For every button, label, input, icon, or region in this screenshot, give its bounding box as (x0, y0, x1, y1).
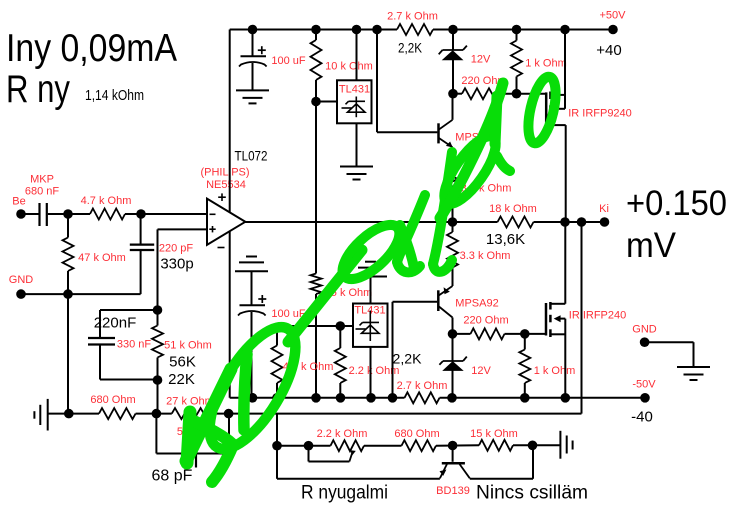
svg-text:1,14 kOhm: 1,14 kOhm (85, 88, 144, 104)
node lower rail junction B1 (248, 393, 258, 403)
node top rail junction A4 (372, 25, 382, 35)
wire op-amp V- supply (229, 232, 231, 398)
wire input to cap (21, 213, 39, 215)
wire 220pF bottom riser (140, 250, 142, 294)
wire MPSA42 base horizontal (377, 131, 437, 133)
wire TL431-top cathode (356, 30, 358, 81)
ground under 100uF-top (236, 89, 269, 91)
op-amp V+ marker (218, 196, 226, 198)
wire 47k bottom stem (67, 271, 69, 294)
wire 220pF top stem (140, 214, 142, 245)
wire TL431-top ref link (316, 101, 337, 103)
resistor 680 Ohm feedback (99, 408, 136, 419)
node 220R/1k/gate junction lower (520, 329, 530, 339)
ground inverted above 100uF-lower (246, 256, 257, 258)
transistor Q-MPSA92 (437, 290, 440, 311)
svg-text:4.7 k Ohm: 4.7 k Ohm (81, 195, 132, 207)
node top rail junction A5 (zener top) (448, 25, 458, 35)
resistor 27k (172, 408, 210, 419)
capacitor 68pF loop (155, 414, 157, 454)
wire 4.7k-low bottom stem (276, 383, 278, 398)
svg-text:1 k Ohm: 1 k Ohm (525, 58, 567, 70)
svg-text:mV: mV (626, 226, 677, 265)
svg-text:GND: GND (632, 324, 657, 336)
resistor 3.3k lower (447, 232, 458, 268)
wire gate IRFP240 (525, 333, 545, 335)
node lower rail junction B4 (336, 393, 346, 403)
wire 3.3k-upper to output (452, 202, 454, 223)
wire 1k-top bottom stem (516, 77, 518, 94)
symbol trimmer wiper arrow (349, 452, 352, 462)
wire BD139 emitter line (277, 478, 440, 480)
svg-text:MKP: MKP (30, 174, 54, 186)
wire top rail left segment (filtered +supply node) (230, 29, 397, 31)
wire 15k to lower rail (315, 294, 317, 398)
node 51k top junction (153, 305, 163, 315)
wire bias line 2 (364, 445, 402, 447)
op-amp V- marker (218, 247, 225, 249)
wire TL431-lower bottom stem (370, 347, 372, 398)
wire top rail right segment (+50V rail) (433, 29, 613, 31)
wire zener-top cathode stem (452, 30, 454, 51)
wire op-amp V+ supply (229, 30, 231, 213)
node 10k-TL431 junction (311, 97, 321, 107)
svg-text:IR IRFP9240: IR IRFP9240 (568, 108, 632, 120)
svg-text:1 k Ohm: 1 k Ohm (534, 365, 576, 377)
svg-text:10 k Ohm: 10 k Ohm (325, 61, 373, 73)
ground under TL431-top (340, 166, 373, 168)
symbol TL431 lower internals (369, 311, 371, 342)
wire IRFP9240 source to +50V (564, 30, 566, 109)
wire ref line y326 (277, 325, 353, 327)
resistor 4.7k lower (272, 346, 283, 384)
node lower rail junction B2 (272, 393, 282, 403)
capacitor MKP 680nF (38, 203, 40, 226)
svg-text:R nyugalmi: R nyugalmi (301, 483, 388, 504)
svg-text:(PHIL PS): (PHIL PS) (200, 167, 249, 179)
node 47k/GND junction (63, 289, 73, 299)
node bias node C4 (528, 441, 538, 451)
wire GND line (21, 293, 141, 295)
node top rail junction A1 (248, 25, 258, 35)
wire trimmer tap loop (308, 446, 310, 462)
svg-text:2.2 k Ohm: 2.2 k Ohm (317, 428, 368, 440)
ground rotated left (47, 399, 49, 431)
svg-text:12V: 12V (471, 54, 491, 66)
node output/3.3k junction (448, 217, 458, 227)
node input terminal Be (16, 209, 26, 219)
svg-text:R ny: R ny (6, 68, 70, 111)
wire gate IRFP9240 (517, 93, 546, 95)
watermark KD audio (186, 369, 231, 461)
svg-text:18 k Ohm: 18 k Ohm (489, 203, 537, 215)
node +50V terminal (608, 25, 618, 35)
resistor 220 Ohm lower (453, 333, 471, 335)
wire 4.7k-low top stem (276, 326, 278, 346)
svg-text:330 nF: 330 nF (117, 339, 152, 351)
capacitor C-100uF-lower (240, 304, 266, 306)
resistor 15k bias (479, 440, 513, 451)
wire bias line 3 (436, 444, 479, 446)
svg-text:-50V: -50V (632, 379, 656, 391)
node lower rail junction B3 (311, 393, 321, 403)
wire 2.2k-low top stem (339, 326, 341, 348)
svg-text:GND: GND (9, 274, 34, 286)
wire bias line 4 (513, 444, 560, 446)
svg-text:TL072: TL072 (235, 149, 268, 164)
node lower rail junction B9 (mosfet source low) (561, 393, 571, 403)
wire 100uF-top stem upper (252, 30, 254, 57)
svg-text:2,2K: 2,2K (398, 40, 423, 56)
wire IRFP240 source to rail (564, 319, 566, 398)
transistor Q-IRFP240 (545, 303, 548, 336)
node 51k bottom junction (153, 375, 163, 385)
wire BD139 collector riser (532, 445, 534, 479)
ground symbol right (677, 366, 710, 368)
node bias node C3 (BD139 base) (448, 441, 458, 451)
svg-text:2,2K: 2,2K (393, 351, 423, 367)
svg-text:3.3 k Ohm: 3.3 k Ohm (460, 250, 511, 262)
node top rail junction A6 (1k top) (512, 25, 522, 35)
wire TL431-top anode stem (356, 123, 358, 166)
wire IRFP9240 drain to output (565, 125, 567, 222)
wire lower rail right segment (-50V) (440, 397, 646, 399)
node -50V terminal (640, 393, 650, 403)
diode zener 12V lower (443, 360, 463, 362)
wire MPSA92 base horizontal (393, 301, 438, 303)
wire 220nF top link (100, 309, 158, 311)
wire 1k-low bottom stem (524, 383, 526, 398)
node feedback node F1 (64, 409, 74, 419)
svg-text:2.7 k Ohm: 2.7 k Ohm (397, 380, 448, 392)
svg-text:MPSA92: MPSA92 (455, 298, 498, 310)
svg-text:IR IRFP240: IR IRFP240 (569, 310, 626, 322)
node zener-top / 220R junction (448, 89, 458, 99)
svg-text:12V: 12V (471, 365, 491, 377)
resistor 680 Ohm bias (402, 440, 437, 451)
op-amp noninverting input marker (209, 228, 215, 230)
wire to op-amp inverting input (125, 213, 207, 215)
node MPSA92-collector/220R junction (448, 329, 458, 339)
wire 10k bottom stem (315, 80, 317, 102)
wire feedback long line (210, 413, 581, 415)
svg-text:51 k Ohm: 51 k Ohm (164, 340, 212, 352)
IC TL431 top box (337, 80, 372, 123)
svg-text:Nincs csilläm: Nincs csilläm (476, 483, 588, 504)
svg-text:BD139: BD139 (436, 485, 470, 497)
node GND terminal right (640, 337, 650, 347)
svg-text:Ki: Ki (599, 203, 609, 215)
svg-text:56K: 56K (169, 354, 196, 371)
node output/feedback junction (577, 217, 587, 227)
resistor 2.7k lower (405, 392, 440, 403)
svg-text:2.7 k Ohm: 2.7 k Ohm (387, 11, 438, 23)
wire TL431-lower top stem (370, 277, 372, 304)
svg-text:220nF: 220nF (94, 315, 137, 332)
node GND terminal left (16, 289, 26, 299)
node output/drain junction (560, 217, 570, 227)
node top rail junction A7 (mosfet source) (560, 25, 570, 35)
resistor 4.7k input (90, 209, 125, 220)
svg-text:330p: 330p (160, 256, 193, 273)
resistor 51k (152, 326, 163, 358)
node lower rail junction B6 (388, 393, 398, 403)
wire +input vertical (157, 229, 159, 310)
wire lower rail left segment (230, 397, 405, 399)
ground inverted above TL431-lower (365, 261, 376, 263)
resistor 18k (498, 217, 534, 228)
wire 10k-to-15k vertical (315, 102, 317, 274)
wire 47k top stem (67, 214, 69, 238)
wire filtered-rail to MPSA42 base vertical (376, 30, 378, 133)
wire 3.3k-lower top stem (452, 222, 454, 232)
svg-text:+0.150: +0.150 (626, 184, 727, 223)
wire 220nF bottom link (100, 379, 158, 381)
node input node B (136, 209, 146, 219)
capacitor C-100uF-top (241, 55, 267, 57)
wire zener-lower top stem (452, 334, 454, 361)
wire 220nF left riser (99, 310, 101, 338)
wire IRFP240 drain to output (564, 222, 566, 304)
wire MPSA92 base to filtered lower rail (392, 302, 394, 398)
node lower rail junction B7 (zener low) (447, 393, 457, 403)
resistor 220 Ohm top (453, 93, 462, 95)
svg-text:220 pF: 220 pF (159, 243, 194, 255)
svg-text:13,6K: 13,6K (486, 231, 525, 248)
node feedback node F2 (152, 409, 162, 419)
svg-text:100 uF: 100 uF (271, 55, 306, 67)
wire cap to node A (48, 213, 90, 215)
svg-text:220 Ohm: 220 Ohm (463, 315, 508, 327)
wire 100uF-lower top stem (251, 271, 253, 305)
resistor 47k (63, 238, 74, 272)
op-amp U1 TL072 triangle (207, 199, 245, 245)
svg-text:47 k Ohm: 47 k Ohm (78, 252, 126, 264)
svg-text:680 Ohm: 680 Ohm (90, 394, 135, 406)
op-amp inverting input marker (210, 213, 216, 215)
wire GND-right vertical (693, 342, 695, 367)
wire feedback riser (581, 222, 583, 414)
svg-text:680 Ohm: 680 Ohm (394, 428, 439, 440)
svg-text:15 k Ohm: 15 k Ohm (470, 428, 518, 440)
svg-text:TL431: TL431 (339, 84, 370, 96)
wire left vertical 68-down (67, 294, 69, 414)
resistor 2.2k lower (335, 348, 346, 383)
node lower rail junction B5 (366, 393, 376, 403)
resistor 1k lower (519, 350, 530, 384)
wire 220nF bottom riser (99, 345, 101, 380)
resistor trimmer 2.2k (331, 440, 365, 451)
wire MPSA92 emitter stem (452, 268, 454, 287)
wire output line right (534, 221, 605, 223)
IC TL431 lower box (353, 304, 388, 347)
wire 10k top stem (315, 30, 317, 41)
wire 51k top stem (157, 310, 159, 326)
node 1k/220R/gate junction top (512, 89, 522, 99)
wire MPSA92 collector stem (452, 318, 454, 334)
svg-text:-40: -40 (631, 409, 653, 426)
wire bias drop vertical (276, 414, 278, 479)
wire MPSA42 emitter stem (452, 147, 454, 171)
wire 1k-low top stem (524, 334, 526, 350)
wire op-amp + input (158, 228, 208, 230)
wire 1k-top stem (516, 30, 518, 41)
svg-text:+40: +40 (596, 42, 621, 59)
svg-text:68 pF: 68 pF (152, 468, 193, 485)
svg-text:Iny 0,09mA: Iny 0,09mA (6, 27, 177, 70)
transistor Q-IRFP9240 (545, 92, 548, 125)
node top rail junction A2 (311, 25, 321, 35)
wire bias line 1 (277, 445, 331, 447)
node bias node C2 (trimmer tap) (304, 441, 314, 451)
wire fb segment 1 (69, 413, 99, 415)
wire 51k-to-feedback vertical (157, 380, 159, 414)
node feedback node F3 (224, 409, 234, 419)
resistor 3.3k upper (447, 172, 458, 202)
node lower rail junction B8 (1k low) (520, 393, 530, 403)
svg-text:+50V: +50V (600, 10, 627, 22)
wire MPSA42 collector (452, 94, 454, 120)
symbol TL431 top internals (355, 97, 357, 118)
node input node A (63, 209, 73, 219)
ground rotated right (559, 431, 561, 459)
transistor Q-MPSA42 (437, 123, 440, 143)
resistor 2.7k top (rail filter) (397, 24, 433, 35)
svg-text:Be: Be (12, 196, 25, 208)
node top rail junction A3 (352, 25, 362, 35)
node bias node C1 (272, 441, 282, 451)
transistor Q-BD139 (452, 446, 454, 462)
svg-text:680 nF: 680 nF (25, 186, 60, 198)
capacitor 220pF (130, 244, 154, 246)
node 2.2k-low top junction (336, 321, 346, 331)
wire fb segment 2 (136, 413, 172, 415)
node output terminal Ki (600, 217, 610, 227)
wire op-amp output line (245, 221, 497, 223)
diode zener 12V top (443, 49, 464, 51)
wire 2.2k-low bottom stem (339, 383, 341, 398)
resistor 10k (311, 40, 322, 80)
wire GND-right horizontal (645, 341, 694, 343)
svg-text:NE5534: NE5534 (206, 179, 246, 191)
wire 51k bottom stem (157, 358, 159, 381)
capacitor 330nF (88, 337, 115, 339)
svg-text:22K: 22K (168, 371, 195, 388)
wire BD139 collector line (470, 478, 533, 480)
resistor 15k mid (311, 274, 322, 295)
resistor 1k top (511, 41, 522, 77)
